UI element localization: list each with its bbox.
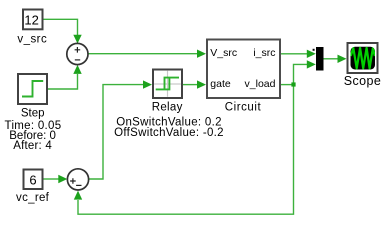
svg-text:gate: gate — [210, 78, 231, 90]
svg-text:Circuit: Circuit — [225, 101, 262, 113]
wire from Circuit i_src to Mux input 1 — [281, 50, 316, 58]
wire from Constant vc_ref to Sum2 — [44, 175, 68, 183]
sum block Sum1 — [67, 43, 88, 64]
wire from Step to Sum1 — [48, 65, 82, 89]
wire from Sum2 to Relay — [89, 80, 152, 179]
wire from Constant v_src to Sum1 — [44, 19, 82, 43]
svg-text:Relay: Relay — [152, 101, 183, 113]
junction dot — [291, 82, 295, 86]
wire junction to Mux input 2 — [294, 60, 316, 84]
wire from Sum1 to Circuit V_src — [88, 50, 206, 58]
svg-text:After: 4: After: 4 — [13, 140, 52, 152]
constant block 12 — [23, 10, 43, 30]
small dot annotation — [313, 49, 315, 51]
svg-text:6: 6 — [29, 172, 36, 187]
mux bar — [316, 47, 324, 71]
svg-text:12: 12 — [24, 12, 38, 27]
wire junction down and to Sum2 bottom input — [74, 85, 294, 215]
svg-text:v_load: v_load — [245, 78, 276, 90]
scope block — [348, 43, 378, 73]
wire from Relay to Circuit gate — [183, 80, 206, 88]
wire from Circuit v_load to junction — [281, 84, 294, 86]
subsystem block Circuit — [207, 40, 280, 99]
step block — [18, 74, 47, 104]
svg-text:v_src: v_src — [17, 34, 47, 46]
svg-text:Scope: Scope — [344, 74, 381, 88]
sum block Sum2 — [67, 169, 88, 190]
svg-text:vc_ref: vc_ref — [16, 192, 50, 204]
constant block 6 — [24, 170, 43, 190]
relay block — [153, 70, 182, 99]
svg-text:V_src: V_src — [210, 47, 237, 59]
wire from Mux to Scope — [324, 55, 347, 63]
svg-text:Step: Step — [21, 108, 45, 120]
svg-text:i_src: i_src — [253, 47, 275, 59]
svg-text:OffSwitchValue: -0.2: OffSwitchValue: -0.2 — [114, 127, 224, 139]
